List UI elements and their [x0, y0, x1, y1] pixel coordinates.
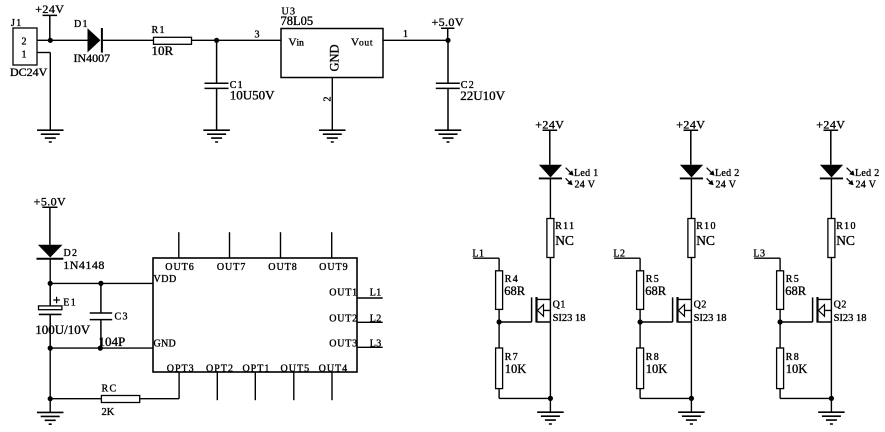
- wire bottom rail: [780, 397, 831, 399]
- resistor R8 10K: [637, 348, 668, 389]
- junction J1/+24V/D1: [48, 38, 53, 43]
- transistor Q1 SI2318 (NMOS): [532, 297, 586, 324]
- capacitor C3 104P: [90, 283, 129, 348]
- svg-text:OUT6: OUT6: [165, 262, 195, 273]
- junction C3 bottom: [98, 346, 103, 351]
- svg-text:OUT1: OUT1: [329, 288, 358, 299]
- svg-text:Led 2: Led 2: [855, 168, 880, 179]
- svg-text:OUT8: OUT8: [268, 262, 298, 273]
- svg-text:1N4148: 1N4148: [63, 258, 105, 272]
- wire Q2 source down: [830, 322, 832, 398]
- junction R1/C1: [214, 38, 219, 43]
- power +24V (L1 channel): [535, 117, 564, 164]
- svg-text:Q2: Q2: [834, 300, 847, 311]
- svg-text:J1: J1: [11, 18, 23, 29]
- svg-text:Vin: Vin: [289, 37, 305, 49]
- svg-text:NC: NC: [555, 233, 574, 248]
- wire gate node down: [779, 322, 781, 348]
- wire to channel ground: [549, 398, 551, 412]
- junction gate Q2: [638, 319, 643, 324]
- ground channel L3: [818, 412, 845, 424]
- svg-text:OUT4: OUT4: [319, 363, 349, 374]
- wire LED to R11: [549, 178, 551, 218]
- resistor R5 68R: [777, 271, 807, 310]
- svg-text:Led 2: Led 2: [715, 168, 740, 179]
- wire node to D1 anode: [50, 39, 87, 41]
- svg-text:+24V: +24V: [676, 117, 705, 131]
- svg-text:L2: L2: [370, 314, 382, 325]
- svg-text:L3: L3: [370, 339, 382, 350]
- svg-text:SI23 18: SI23 18: [694, 313, 727, 324]
- junction C3 top: [98, 281, 103, 286]
- wire Q1 source down: [549, 322, 551, 398]
- resistor R8 10K: [777, 348, 808, 389]
- svg-text:104P: 104P: [99, 334, 126, 349]
- svg-text:22U10V: 22U10V: [460, 88, 505, 103]
- IC U (driver) box: [153, 258, 357, 372]
- junction source/ground: [829, 396, 834, 401]
- wire OPT3 stub: [178, 372, 180, 399]
- resistor R11 NC: [547, 219, 576, 258]
- resistor R7 10K: [496, 348, 527, 389]
- regulator U3 78L05: [281, 6, 384, 77]
- wire gnd rail down: [49, 348, 51, 399]
- svg-text:R1: R1: [152, 25, 166, 36]
- svg-text:24 V: 24 V: [716, 179, 737, 190]
- svg-text:2K: 2K: [102, 407, 115, 418]
- wire J1 pin2 to node: [37, 39, 50, 41]
- junction D2/E1: [48, 281, 53, 286]
- wire U3 GND pin down: [331, 78, 333, 131]
- svg-text:10R: 10R: [152, 43, 174, 58]
- svg-text:OPT2: OPT2: [206, 363, 234, 374]
- LED Led 2: [680, 165, 740, 191]
- wire D1 to R1: [103, 39, 154, 41]
- capacitor E1 100U/10V (polarized): [35, 283, 91, 348]
- svg-text:+24V: +24V: [816, 117, 845, 131]
- ground C2: [435, 130, 462, 142]
- pin stub OPT1 (bottom): [254, 372, 256, 400]
- wire bottom rail: [640, 397, 691, 399]
- svg-text:E1: E1: [63, 298, 77, 309]
- pin wire OUT3: [357, 346, 383, 348]
- pin wire OUT1: [357, 297, 383, 299]
- resistor R5 68R: [637, 271, 667, 310]
- power +5.0V (logic): [34, 194, 66, 244]
- pin stub OUT5 (bottom): [293, 372, 295, 400]
- wire D2 cathode down: [49, 259, 51, 284]
- svg-text:Q2: Q2: [694, 300, 707, 311]
- svg-text:Led 1: Led 1: [574, 168, 599, 179]
- junction source/ground: [689, 396, 694, 401]
- junction gate Q2: [778, 319, 783, 324]
- svg-text:L1: L1: [370, 288, 382, 299]
- svg-text:D1: D1: [74, 19, 89, 30]
- wire R5 to gate node: [639, 309, 641, 322]
- capacitor C2 22U10V: [436, 40, 506, 130]
- pin wire OUT2: [357, 321, 383, 323]
- wire J1 pin1 out: [37, 52, 50, 54]
- svg-text:3: 3: [255, 29, 260, 40]
- svg-text:10K: 10K: [786, 362, 808, 376]
- svg-text:C3: C3: [115, 312, 129, 323]
- svg-text:+24V: +24V: [35, 2, 64, 16]
- svg-text:OPT1: OPT1: [242, 363, 270, 374]
- ground J1: [37, 130, 64, 142]
- resistor R1 10R: [152, 25, 192, 58]
- ground channel L1: [537, 412, 564, 424]
- svg-text:10U50V: 10U50V: [230, 87, 275, 102]
- pin stub OUT8 (top): [280, 232, 282, 258]
- power +5.0V (top): [431, 15, 463, 40]
- wire U3 Vout to +5V node: [383, 39, 448, 41]
- wire L2 to R5: [639, 258, 641, 271]
- resistor R10 NC: [828, 219, 857, 258]
- wire L1 to R4: [498, 258, 500, 271]
- wire L3 to R5: [779, 258, 781, 271]
- svg-text:78L05: 78L05: [281, 14, 314, 28]
- wire to logic ground: [49, 399, 51, 413]
- svg-text:R10: R10: [836, 221, 857, 232]
- svg-text:GND: GND: [154, 338, 177, 349]
- wire R4 to gate node: [498, 309, 500, 322]
- wire node to RC: [50, 398, 101, 400]
- wire R1 to U3 Vin: [192, 39, 282, 41]
- wire R5 to gate node: [779, 309, 781, 322]
- svg-text:OUT5: OUT5: [281, 363, 311, 374]
- svg-text:2: 2: [323, 97, 334, 102]
- wire gate Q2: [780, 321, 813, 323]
- connector J1: [10, 18, 48, 79]
- svg-text:24 V: 24 V: [575, 179, 596, 190]
- svg-text:68R: 68R: [504, 284, 526, 298]
- wire gate Q1: [499, 321, 531, 323]
- power +24V (L3 channel): [816, 117, 845, 164]
- wire R8 to bottom: [779, 389, 781, 399]
- wire J1 pin1 down to ground: [49, 53, 51, 131]
- svg-text:Q1: Q1: [553, 300, 566, 311]
- wire R10 to Q2 drain: [690, 258, 692, 300]
- svg-text:OUT7: OUT7: [217, 262, 247, 273]
- resistor R10 NC: [688, 219, 717, 258]
- svg-text:2: 2: [22, 37, 27, 48]
- svg-text:NC: NC: [696, 233, 715, 248]
- wire to channel ground: [830, 398, 832, 412]
- svg-text:IN4007: IN4007: [74, 51, 111, 65]
- pin stub OPT2 (bottom): [216, 372, 218, 400]
- wire R8 to bottom: [639, 389, 641, 399]
- pin stub OUT7 (top): [229, 232, 231, 258]
- junction RC/ground: [48, 396, 53, 401]
- resistor RC 2K: [101, 384, 139, 419]
- svg-text:1: 1: [22, 50, 27, 61]
- diode D1 IN4007: [74, 19, 111, 65]
- svg-text:+5.0V: +5.0V: [431, 15, 463, 29]
- wire L2 net: [614, 257, 640, 259]
- wire L1 net: [473, 257, 499, 259]
- wire gate Q2: [640, 321, 673, 323]
- svg-text:24 V: 24 V: [856, 179, 877, 190]
- wire Q2 source down: [690, 322, 692, 398]
- svg-text:10K: 10K: [646, 362, 668, 376]
- svg-text:R10: R10: [696, 221, 717, 232]
- wire LED to R10: [830, 178, 832, 218]
- transistor Q2 SI2318 (NMOS): [673, 297, 727, 324]
- junction E1 bottom: [48, 346, 53, 351]
- wire gnd rail to IC GND: [50, 347, 153, 349]
- svg-text:OPT3: OPT3: [167, 363, 195, 374]
- wire RC to OPT3: [140, 398, 179, 400]
- junction Vout/C2/+5V: [445, 38, 450, 43]
- transistor Q2 SI2318 (NMOS): [813, 297, 867, 324]
- LED Led 2: [820, 165, 880, 191]
- wire R10 to Q2 drain: [830, 258, 832, 300]
- pin stub OUT9 (top): [331, 232, 333, 258]
- junction source/ground: [548, 396, 553, 401]
- svg-text:10K: 10K: [505, 362, 527, 376]
- resistor R4 68R: [496, 271, 526, 310]
- svg-text:R11: R11: [555, 221, 575, 232]
- svg-text:GND: GND: [328, 44, 342, 71]
- svg-text:68R: 68R: [785, 284, 807, 298]
- ground C1: [203, 130, 230, 142]
- svg-text:DC24V: DC24V: [10, 65, 48, 79]
- ground logic: [37, 412, 64, 424]
- wire L3 net: [754, 257, 780, 259]
- svg-text:OUT2: OUT2: [329, 314, 358, 325]
- svg-text:100U/10V: 100U/10V: [35, 322, 91, 337]
- wire R7 to bottom: [498, 389, 500, 399]
- svg-text:SI23 18: SI23 18: [553, 313, 586, 324]
- wire to channel ground: [690, 398, 692, 412]
- svg-text:68R: 68R: [645, 284, 667, 298]
- wire bottom rail: [499, 397, 550, 399]
- capacitor C1 10U50V: [205, 40, 276, 130]
- wire gate node down: [498, 322, 500, 348]
- ground U3: [319, 130, 346, 142]
- wire R11 to Q1 drain: [549, 258, 551, 300]
- svg-text:Vout: Vout: [351, 37, 373, 49]
- svg-text:+24V: +24V: [535, 117, 564, 131]
- junction gate Q1: [497, 319, 502, 324]
- svg-text:SI23 18: SI23 18: [834, 313, 867, 324]
- svg-text:VDD: VDD: [154, 274, 177, 285]
- pin stub OUT6 (top): [178, 232, 180, 258]
- LED Led 1: [539, 165, 599, 191]
- power +24V (L2 channel): [676, 117, 705, 164]
- ground channel L2: [678, 412, 705, 424]
- svg-text:OUT3: OUT3: [329, 339, 358, 350]
- wire LED to R10: [690, 178, 692, 218]
- pin stub OUT4 (bottom): [331, 372, 333, 400]
- svg-text:+5.0V: +5.0V: [34, 194, 66, 208]
- svg-text:NC: NC: [836, 233, 855, 248]
- diode D2 1N4148: [37, 245, 105, 273]
- wire +5V rail to VDD: [50, 282, 153, 284]
- wire gate node down: [639, 322, 641, 348]
- svg-text:RC: RC: [102, 384, 118, 395]
- power +24V (J1): [35, 2, 64, 40]
- svg-text:OUT9: OUT9: [319, 262, 349, 273]
- svg-text:1: 1: [403, 29, 408, 40]
